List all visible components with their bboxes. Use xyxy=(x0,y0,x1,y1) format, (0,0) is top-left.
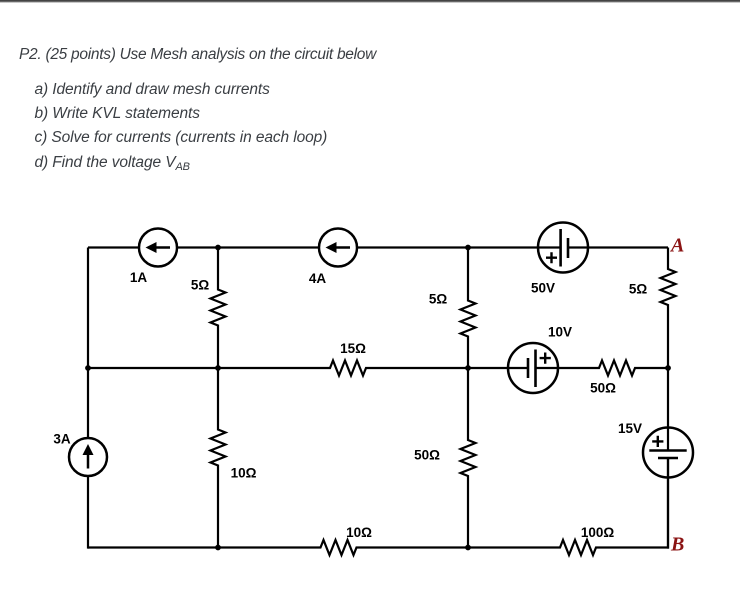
svg-text:50Ω: 50Ω xyxy=(590,381,616,396)
wire top to battery xyxy=(357,246,561,248)
wire left vertical upper xyxy=(87,248,89,439)
svg-text:10Ω: 10Ω xyxy=(231,466,257,481)
svg-text:B: B xyxy=(670,534,684,556)
wire top-left segment xyxy=(88,246,139,248)
svg-text:10Ω: 10Ω xyxy=(346,525,372,540)
resistor R4 50ohm (middle-bottom vertical) xyxy=(414,368,475,549)
resistor R2 10ohm (bottom-left vertical) xyxy=(211,368,257,549)
current source I2 4A xyxy=(309,229,357,287)
svg-text:50V: 50V xyxy=(531,281,555,296)
wire top-right segment xyxy=(568,246,668,248)
current source I1 1A xyxy=(130,229,177,286)
svg-text:15V: 15V xyxy=(618,421,642,436)
wire left vertical lower xyxy=(87,476,89,549)
svg-text:100Ω: 100Ω xyxy=(581,525,615,540)
top border bar xyxy=(0,0,740,3)
resistor R3 5ohm (middle vertical) xyxy=(429,248,476,369)
wire bottom with resistor R8 10ohm and resistor R9 100ohm xyxy=(88,458,668,555)
wire top middle segment xyxy=(177,246,319,248)
wire right vertical lower xyxy=(667,458,669,549)
resistor R5 5ohm (right vertical) xyxy=(629,248,676,429)
voltage source V2 10V battery (middle) xyxy=(508,325,572,394)
svg-text:50Ω: 50Ω xyxy=(414,448,440,463)
resistor R1 5ohm (top-left vertical) xyxy=(191,248,226,369)
svg-text:A: A xyxy=(669,235,684,257)
svg-text:10V: 10V xyxy=(548,325,572,340)
svg-text:1A: 1A xyxy=(130,270,148,285)
wire mid-left with resistor R6 15ohm xyxy=(88,341,528,376)
current source I3 3A xyxy=(53,432,107,477)
svg-text:3A: 3A xyxy=(53,432,71,447)
svg-text:15Ω: 15Ω xyxy=(340,341,366,356)
svg-text:5Ω: 5Ω xyxy=(629,282,648,297)
wire mid-right with resistor R7 50ohm xyxy=(536,361,669,396)
svg-text:5Ω: 5Ω xyxy=(429,292,448,307)
svg-text:5Ω: 5Ω xyxy=(191,278,210,293)
voltage source V3 15V battery (right vertical) xyxy=(618,421,693,478)
svg-text:4A: 4A xyxy=(309,271,327,286)
voltage source V1 50V battery xyxy=(531,223,588,296)
